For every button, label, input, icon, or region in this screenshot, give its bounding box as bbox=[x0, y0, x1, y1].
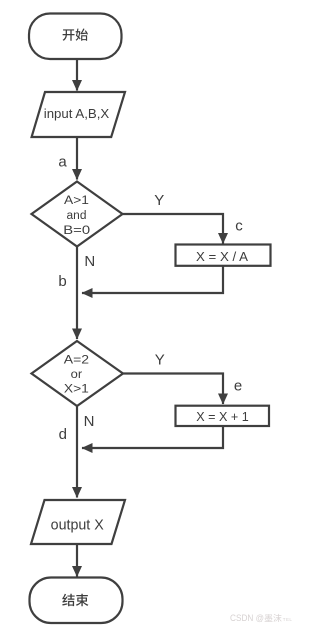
svg-text:Y: Y bbox=[155, 351, 165, 368]
svg-text:X>1: X>1 bbox=[64, 384, 89, 396]
svg-text:output X: output X bbox=[51, 516, 104, 533]
svg-text:Y: Y bbox=[154, 192, 164, 209]
svg-text:B=0: B=0 bbox=[63, 225, 90, 237]
svg-text:b: b bbox=[58, 273, 66, 290]
svg-text:e: e bbox=[234, 377, 242, 394]
svg-text:input A,B,X: input A,B,X bbox=[44, 106, 110, 121]
svg-text:N: N bbox=[84, 413, 95, 430]
svg-text:or: or bbox=[71, 369, 83, 381]
svg-text:c: c bbox=[235, 218, 243, 235]
svg-text:and: and bbox=[67, 210, 87, 222]
svg-text:N: N bbox=[84, 253, 95, 270]
svg-text:A=2: A=2 bbox=[64, 354, 89, 366]
svg-text:TEL: TEL bbox=[283, 617, 293, 622]
svg-text:CSDN @: CSDN @ bbox=[230, 613, 264, 624]
svg-text:A>1: A>1 bbox=[64, 195, 89, 207]
svg-text:X = X / A: X = X / A bbox=[196, 250, 249, 264]
svg-text:d: d bbox=[59, 426, 67, 443]
svg-text:a: a bbox=[58, 154, 67, 171]
svg-text:X = X + 1: X = X + 1 bbox=[196, 410, 249, 424]
